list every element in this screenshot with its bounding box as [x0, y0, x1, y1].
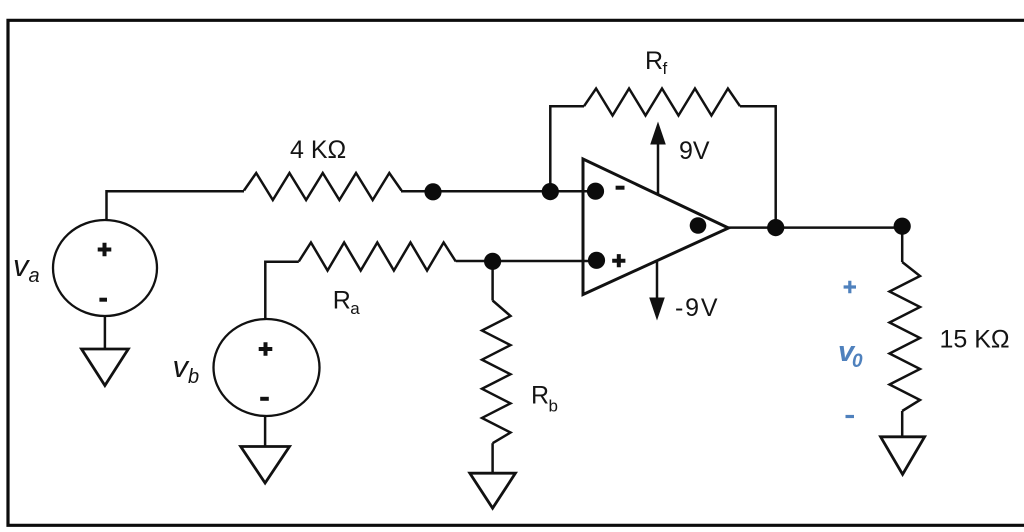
svg-text:4 KΩ: 4 KΩ: [290, 136, 346, 164]
svg-text:a: a: [350, 299, 360, 318]
svg-text:v: v: [13, 248, 30, 283]
svg-text:v: v: [173, 349, 190, 384]
svg-text:R: R: [531, 382, 549, 410]
svg-text:b: b: [549, 397, 558, 416]
svg-text:-9V: -9V: [675, 294, 719, 322]
svg-text:R: R: [645, 47, 663, 75]
svg-text:0: 0: [852, 351, 863, 372]
svg-text:a: a: [29, 265, 40, 287]
svg-text:R: R: [333, 287, 351, 315]
svg-text:9V: 9V: [679, 137, 710, 165]
svg-text:15 KΩ: 15 KΩ: [940, 326, 1010, 354]
svg-text:f: f: [663, 59, 668, 78]
svg-text:b: b: [188, 366, 199, 388]
